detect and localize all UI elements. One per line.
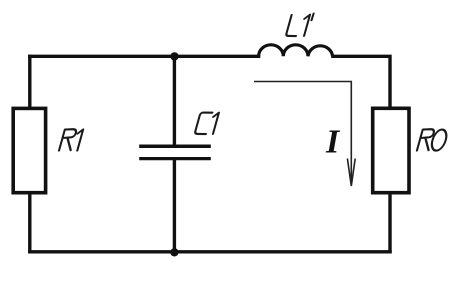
svg-text:I: I — [325, 124, 341, 161]
